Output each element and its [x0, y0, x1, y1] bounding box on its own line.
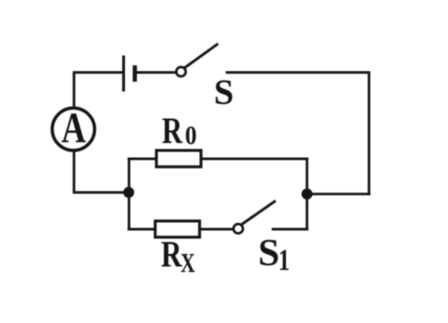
wire: R0 branch left lead	[129, 158, 156, 161]
wire: parallel-loop right vertical	[306, 159, 309, 229]
wire: S1 to bottom-right corner	[273, 228, 307, 231]
wire: ammeter branch to left junction	[74, 151, 129, 193]
svg-text:R: R	[162, 112, 183, 152]
svg-text:S: S	[258, 232, 279, 274]
wire: R0 branch right lead	[201, 158, 307, 161]
wire: parallel-loop left vertical	[128, 159, 131, 229]
wire: Rx branch left lead	[129, 228, 155, 231]
switch S1	[234, 202, 275, 234]
svg-text:R: R	[161, 234, 183, 275]
svg-text:A: A	[61, 104, 86, 152]
switch S	[176, 45, 217, 77]
resistor R0	[156, 150, 201, 166]
svg-text:X: X	[181, 249, 196, 278]
resistor Rx	[155, 221, 199, 237]
ammeter A	[52, 108, 94, 150]
node: right junction dot	[302, 189, 313, 200]
wire: top-left horizontal (corner to battery)	[74, 72, 122, 107]
wire: battery to switch S	[137, 71, 175, 74]
battery B1	[124, 56, 135, 92]
svg-text:1: 1	[278, 243, 290, 277]
wire: switch S to top-right corner, down right side	[227, 72, 369, 194]
svg-text:0: 0	[185, 122, 197, 150]
wire: right junction to outer right wire	[307, 193, 369, 196]
wire: Rx to switch S1	[200, 228, 233, 231]
svg-text:S: S	[214, 72, 234, 112]
node: left junction dot	[123, 187, 134, 198]
